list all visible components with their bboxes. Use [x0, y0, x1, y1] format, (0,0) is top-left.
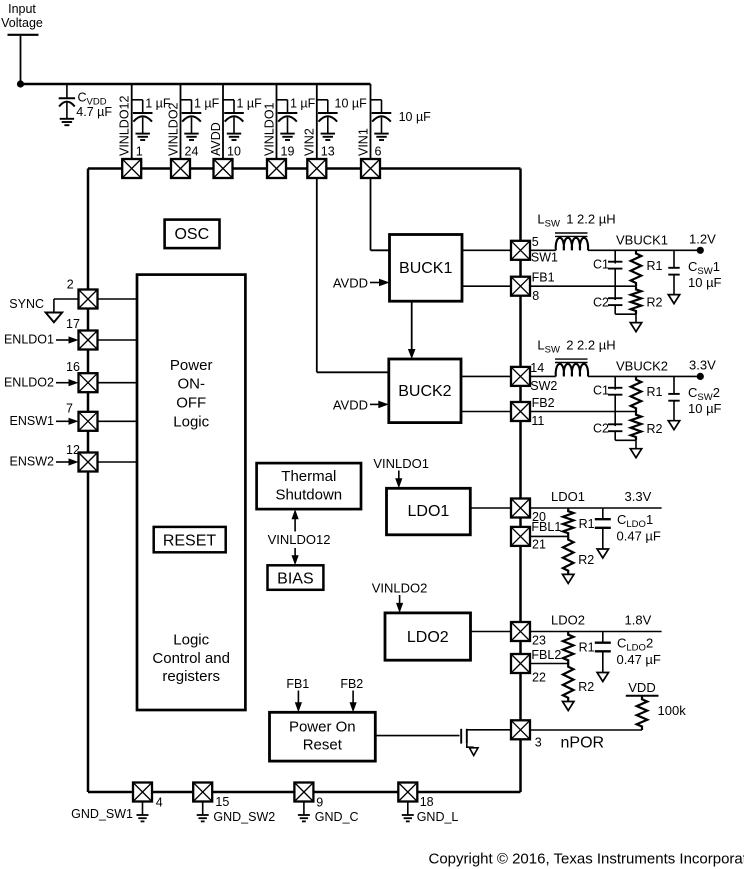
svg-text:C2: C2: [593, 295, 609, 309]
svg-text:GND_L: GND_L: [417, 810, 459, 824]
svg-text:OFF: OFF: [176, 395, 206, 412]
svg-text:100k: 100k: [658, 703, 687, 718]
svg-text:4.7 µF: 4.7 µF: [76, 105, 112, 119]
svg-text:1 µF: 1 µF: [290, 97, 316, 111]
svg-text:16: 16: [66, 360, 80, 374]
svg-text:FB1: FB1: [286, 677, 309, 691]
svg-text:Voltage: Voltage: [1, 16, 43, 30]
svg-text:VINLDO1: VINLDO1: [373, 456, 429, 471]
svg-text:9: 9: [316, 796, 323, 810]
svg-text:Logic: Logic: [173, 632, 209, 649]
svg-text:2: 2: [67, 277, 74, 291]
svg-text:6: 6: [375, 145, 382, 159]
svg-text:ENLDO2: ENLDO2: [4, 375, 54, 389]
svg-text:C1: C1: [593, 257, 609, 271]
svg-text:R1: R1: [647, 385, 663, 399]
svg-text:4: 4: [156, 796, 163, 810]
svg-text:VINLDO12: VINLDO12: [118, 96, 132, 156]
svg-text:10 µF: 10 µF: [688, 275, 722, 290]
svg-text:10 µF: 10 µF: [335, 97, 368, 111]
svg-text:Thermal: Thermal: [281, 468, 336, 485]
svg-text:SW2: SW2: [530, 379, 557, 393]
svg-text:AVDD: AVDD: [333, 398, 368, 413]
svg-text:Copyright © 2016, Texas Instru: Copyright © 2016, Texas Instruments Inco…: [429, 850, 744, 867]
svg-text:Shutdown: Shutdown: [275, 487, 342, 504]
svg-text:AVDD: AVDD: [209, 122, 223, 156]
svg-text:registers: registers: [162, 668, 220, 685]
svg-text:10 µF: 10 µF: [688, 401, 722, 416]
svg-text:R2: R2: [578, 680, 594, 694]
svg-text:BUCK1: BUCK1: [399, 260, 452, 277]
svg-text:VBUCK2: VBUCK2: [616, 358, 668, 373]
svg-text:ON-: ON-: [177, 376, 205, 393]
svg-text:1.2V: 1.2V: [689, 231, 716, 246]
svg-text:R1: R1: [579, 517, 595, 531]
svg-text:Logic: Logic: [173, 414, 209, 431]
svg-text:C2: C2: [593, 421, 609, 435]
svg-text:GND_C: GND_C: [315, 810, 359, 824]
svg-text:FBL2: FBL2: [531, 648, 561, 662]
svg-text:11: 11: [531, 414, 544, 428]
svg-text:ENLDO1: ENLDO1: [4, 333, 54, 347]
svg-text:Input: Input: [8, 2, 36, 16]
svg-text:15: 15: [215, 795, 229, 809]
svg-text:Power On: Power On: [289, 719, 356, 736]
svg-text:SW1: SW1: [531, 251, 558, 265]
svg-text:23: 23: [532, 634, 546, 648]
svg-text:R1: R1: [579, 641, 595, 655]
svg-text:AVDD: AVDD: [333, 276, 368, 291]
svg-text:21: 21: [532, 538, 546, 552]
svg-text:5: 5: [532, 235, 539, 249]
svg-text:1.8V: 1.8V: [625, 613, 652, 628]
svg-text:LDO1: LDO1: [408, 503, 450, 520]
svg-text:VDD: VDD: [628, 680, 655, 695]
svg-text:nPOR: nPOR: [561, 735, 605, 752]
svg-text:10: 10: [227, 145, 241, 159]
svg-text:1 2.2 µH: 1 2.2 µH: [566, 212, 615, 227]
svg-text:0.47 µF: 0.47 µF: [617, 652, 661, 667]
svg-text:R2: R2: [578, 553, 594, 567]
svg-text:ENSW1: ENSW1: [10, 414, 55, 428]
svg-text:FB2: FB2: [532, 396, 555, 410]
svg-text:7: 7: [66, 402, 73, 416]
svg-text:2 2.2 µH: 2 2.2 µH: [566, 338, 615, 353]
svg-text:Reset: Reset: [303, 737, 343, 754]
svg-text:8: 8: [532, 289, 539, 303]
svg-text:VIN1: VIN1: [356, 128, 370, 156]
svg-text:10 µF: 10 µF: [399, 110, 432, 124]
svg-text:VBUCK1: VBUCK1: [616, 232, 668, 247]
svg-text:R1: R1: [647, 259, 663, 273]
svg-text:3.3V: 3.3V: [689, 357, 716, 372]
svg-text:1 µF: 1 µF: [194, 97, 220, 111]
svg-text:VINLDO2: VINLDO2: [372, 581, 428, 596]
svg-text:LDO2: LDO2: [407, 629, 449, 646]
svg-text:LDO2: LDO2: [551, 613, 585, 628]
svg-text:GND_SW2: GND_SW2: [213, 810, 275, 824]
svg-text:OSC: OSC: [174, 226, 209, 243]
svg-text:14: 14: [530, 361, 544, 375]
svg-text:LDO1: LDO1: [551, 489, 585, 504]
svg-text:18: 18: [420, 795, 434, 809]
svg-text:BUCK2: BUCK2: [398, 383, 451, 400]
svg-text:C1: C1: [593, 383, 609, 397]
svg-text:VIN2: VIN2: [303, 128, 317, 156]
svg-text:13: 13: [321, 145, 335, 159]
svg-text:FB1: FB1: [532, 271, 555, 285]
svg-text:FB2: FB2: [340, 677, 363, 691]
svg-text:22: 22: [532, 671, 546, 685]
svg-text:GND_SW1: GND_SW1: [71, 807, 133, 821]
svg-text:1: 1: [136, 145, 143, 159]
svg-text:1 µF: 1 µF: [237, 97, 263, 111]
svg-text:VINLDO12: VINLDO12: [268, 532, 331, 547]
svg-text:VINLDO2: VINLDO2: [166, 102, 180, 156]
svg-text:R2: R2: [647, 422, 663, 436]
svg-text:VINLDO1: VINLDO1: [262, 102, 276, 156]
svg-text:FBL1: FBL1: [531, 520, 561, 534]
svg-text:24: 24: [185, 145, 199, 159]
svg-text:RESET: RESET: [163, 533, 217, 550]
svg-text:3: 3: [535, 736, 542, 750]
svg-text:3.3V: 3.3V: [625, 489, 652, 504]
svg-text:0.47 µF: 0.47 µF: [617, 529, 661, 544]
svg-text:Power: Power: [170, 357, 213, 374]
svg-text:SYNC: SYNC: [9, 297, 44, 311]
svg-text:ENSW2: ENSW2: [10, 455, 55, 469]
svg-text:19: 19: [281, 145, 295, 159]
svg-text:BIAS: BIAS: [277, 571, 313, 588]
svg-text:R2: R2: [647, 296, 663, 310]
svg-text:Control and: Control and: [152, 650, 230, 667]
svg-text:17: 17: [66, 317, 80, 331]
